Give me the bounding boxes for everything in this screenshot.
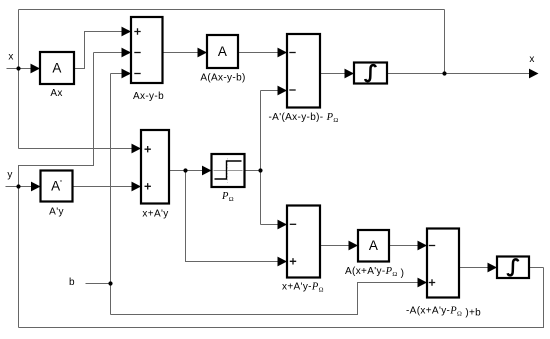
svg-text:A(Ax-y-b): A(Ax-y-b) — [200, 72, 245, 83]
svg-text:x+A'y: x+A'y — [142, 208, 168, 219]
svg-text:x+A'y-PΩ: x+A'y-PΩ — [282, 281, 324, 293]
svg-text:x: x — [529, 54, 534, 65]
svg-text:A: A — [52, 61, 61, 76]
svg-text:-A'(Ax-y-b)- PΩ: -A'(Ax-y-b)- PΩ — [269, 112, 339, 124]
svg-text:A: A — [369, 238, 378, 253]
svg-text:A: A — [218, 44, 227, 59]
svg-text:y: y — [7, 170, 12, 181]
svg-text:Ax-y-b: Ax-y-b — [133, 91, 164, 102]
svg-text:Ax: Ax — [50, 88, 62, 99]
svg-text:A'y: A'y — [49, 206, 64, 217]
svg-text:x: x — [8, 52, 13, 63]
svg-text:b: b — [69, 277, 75, 288]
